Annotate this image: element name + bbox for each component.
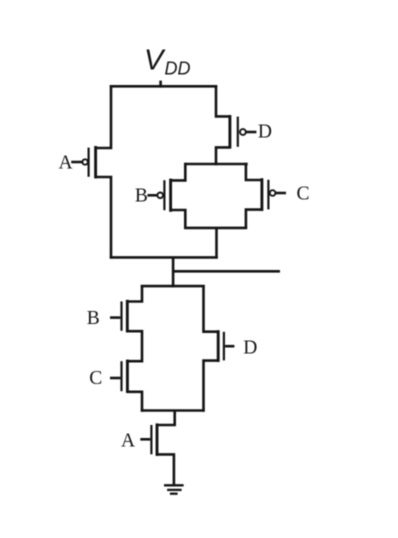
transistor NMOS B xyxy=(110,300,127,333)
wire: PMOS A drain down to PUN rail xyxy=(95,177,111,259)
wire: output line to the right xyxy=(173,270,280,273)
wire: PUN bottom rail xyxy=(110,256,218,259)
wire: top rail to PMOS C source xyxy=(246,163,261,180)
wire: PMOS C drain to parallel bottom rail xyxy=(246,210,261,229)
transistor NMOS C xyxy=(110,360,127,393)
transistor PMOS C xyxy=(262,178,286,211)
wire: NMOS network top rail xyxy=(141,285,205,288)
transistor PMOS A xyxy=(71,146,95,178)
svg-text:D: D xyxy=(243,337,257,358)
wire: VDD rail to PMOS A source xyxy=(95,85,111,148)
wire: top rail to PMOS B source xyxy=(170,163,185,181)
svg-text:V: V xyxy=(144,45,166,77)
wire: output stem xyxy=(172,257,175,287)
wire: NMOS B source to NMOS C drain xyxy=(127,331,143,361)
svg-text:B: B xyxy=(87,308,100,329)
wire: top rail to NMOS B drain xyxy=(127,285,143,302)
wire: VDD rail to PMOS D source xyxy=(216,85,231,116)
wire: PMOS B drain to parallel bottom rail xyxy=(170,210,185,229)
wire: bottom rail down to NMOS A drain xyxy=(156,411,175,426)
wire: NMOS bottom rail xyxy=(141,409,205,412)
wire: VDD tick xyxy=(159,81,162,88)
transistor NMOS A xyxy=(140,423,157,456)
wire: VDD top rail xyxy=(110,85,217,88)
net VDD label xyxy=(144,45,191,79)
svg-text:C: C xyxy=(296,184,309,205)
svg-text:D: D xyxy=(258,122,272,143)
wire: parallel pair down to PUN bottom rail xyxy=(215,228,218,259)
wire: NMOS A source down to ground xyxy=(156,454,174,485)
transistor PMOS D xyxy=(230,115,257,148)
svg-text:A: A xyxy=(59,153,73,174)
wire: NMOS C source down to NMOS bottom rail xyxy=(127,392,143,412)
wire: B/C parallel bottom rail xyxy=(184,227,247,230)
svg-text:C: C xyxy=(89,368,102,389)
ground xyxy=(164,485,184,493)
svg-text:A: A xyxy=(121,431,135,452)
wire: NMOS D source down to NMOS bottom rail xyxy=(204,361,220,412)
wire: B/C parallel top rail xyxy=(184,163,248,166)
transistor NMOS D xyxy=(218,330,234,362)
transistor PMOS B xyxy=(147,179,170,212)
svg-text:B: B xyxy=(135,185,148,206)
svg-text:DD: DD xyxy=(165,59,191,79)
wire: top rail to NMOS D drain xyxy=(204,285,220,332)
wire: PMOS D drain down to parallel pair top rail xyxy=(216,147,231,165)
